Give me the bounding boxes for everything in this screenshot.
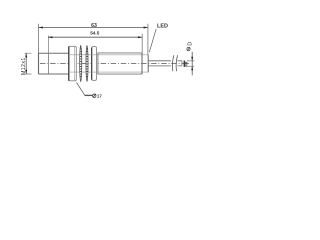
svg-text:LED: LED [157,23,168,29]
svg-text:D: D [187,42,193,46]
svg-text:17: 17 [97,93,102,98]
svg-text:63: 63 [91,23,97,29]
svg-text:M12x1: M12x1 [21,57,27,75]
svg-text:54.5: 54.5 [90,31,100,36]
